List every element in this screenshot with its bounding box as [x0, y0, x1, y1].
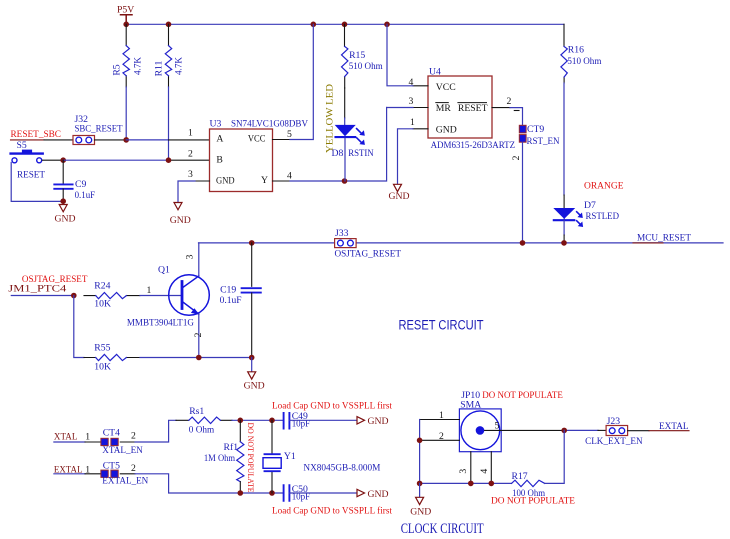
svg-text:CLOCK CIRCUIT: CLOCK CIRCUIT	[401, 521, 484, 537]
svg-text:4.7K: 4.7K	[174, 57, 185, 75]
svg-text:ORANGE: ORANGE	[584, 180, 624, 191]
ground flag right of C50	[357, 489, 389, 500]
svg-text:Rs1: Rs1	[189, 406, 204, 417]
net RESET_SBC	[11, 129, 74, 140]
svg-text:RESET: RESET	[17, 170, 45, 181]
svg-text:C19: C19	[220, 285, 236, 296]
jumper CT5 EXTAL_EN	[101, 460, 148, 486]
svg-text:1: 1	[439, 410, 444, 421]
connector J32 SBC_RESET	[73, 114, 123, 145]
svg-text:R15: R15	[349, 50, 365, 61]
wire Rs1 to junction and rail to C49	[232, 419, 284, 421]
svg-text:GND: GND	[389, 191, 410, 202]
svg-text:Y: Y	[261, 175, 268, 186]
svg-text:MMBT3904LT1G: MMBT3904LT1G	[127, 318, 194, 329]
power P5V	[117, 5, 134, 25]
svg-text:VCC: VCC	[436, 82, 456, 93]
jumper CT4 XTAL_EN	[101, 428, 143, 456]
svg-text:2: 2	[439, 431, 444, 442]
connector J33 OSJTAG_RESET	[335, 228, 402, 260]
SECTION: transistor area	[8, 243, 483, 391]
svg-text:R55: R55	[94, 343, 110, 354]
switch S5	[11, 140, 45, 181]
node junction pin4 bottom	[489, 481, 495, 487]
ground below S5/C9	[55, 201, 76, 224]
node junction pin1 row	[123, 137, 129, 143]
wire U3 pin3 GND	[195, 180, 210, 182]
op-amp U3 SN74LVC1G08DBV body	[210, 118, 309, 191]
wire C49 to GND flag	[289, 419, 356, 421]
svg-text:Rf1: Rf1	[224, 442, 239, 453]
svg-text:CT9: CT9	[527, 124, 544, 135]
svg-text:R11: R11	[154, 60, 165, 76]
svg-text:Q1: Q1	[158, 265, 170, 276]
node P5V junction at R15	[342, 22, 348, 28]
svg-text:1M Ohm: 1M Ohm	[204, 453, 236, 464]
wire R24 to Q1 base	[140, 295, 181, 297]
wire R17 right up to center wire	[545, 430, 565, 483]
svg-text:CT4: CT4	[103, 428, 120, 439]
wire R5 to pin1 row	[125, 87, 127, 140]
svg-text:R16: R16	[568, 45, 584, 56]
LED D8 RSTIN	[332, 125, 374, 159]
node junction pin3 bottom	[468, 481, 474, 487]
svg-text:3: 3	[188, 169, 193, 180]
svg-text:J33: J33	[335, 228, 349, 239]
svg-text:0.1uF: 0.1uF	[220, 295, 243, 306]
svg-text:VCC: VCC	[248, 134, 266, 145]
node P5V junction at R11	[166, 22, 172, 28]
LED D7 RSTLED	[554, 200, 619, 227]
wire junction to U3 pin B	[63, 159, 168, 161]
svg-text:510 Ohm: 510 Ohm	[567, 56, 601, 67]
wire JP10 pin2	[420, 439, 460, 441]
svg-text:CLK_EXT_EN: CLK_EXT_EN	[585, 436, 643, 447]
node junction C19 top	[249, 240, 255, 246]
capacitor C9	[54, 160, 95, 201]
node junction R11 pin2 row	[166, 157, 172, 163]
svg-text:U3: U3	[210, 118, 222, 129]
svg-text:1: 1	[147, 285, 152, 296]
node P5V junction at U4 VCC	[384, 22, 390, 28]
svg-text:B: B	[216, 155, 222, 166]
crystal Y1	[263, 420, 296, 493]
resistor R15 leads	[344, 24, 346, 88]
svg-text:2: 2	[507, 96, 512, 107]
svg-text:3: 3	[458, 469, 469, 474]
svg-text:2: 2	[511, 155, 522, 160]
svg-text:5: 5	[287, 129, 292, 140]
label JP10 DO NOT POPULATE	[460, 390, 563, 411]
op-amp U4 ADM6315 body	[428, 67, 515, 152]
svg-text:R17: R17	[512, 471, 528, 482]
wire D8 to Y row	[344, 138, 346, 181]
resistor Rs1 leads	[176, 419, 232, 421]
node junction Rf1 bottom	[238, 490, 244, 496]
wire U4 pin2 RESET out	[492, 107, 510, 109]
wire R16 to D7	[563, 83, 565, 220]
wire J23 to EXTAL	[628, 430, 649, 432]
svg-text:DO NOT POPULATE: DO NOT POPULATE	[482, 390, 563, 401]
svg-text:Load Cap GND to VSSPLL first: Load Cap GND to VSSPLL first	[272, 506, 392, 517]
svg-text:10K: 10K	[94, 298, 111, 309]
svg-text:2: 2	[188, 148, 193, 159]
svg-text:NX8045GB-8.000M: NX8045GB-8.000M	[303, 463, 380, 474]
SECTION: reset circuit top	[11, 5, 724, 260]
net OSJTAG_RESET / JM1_PTC4	[8, 274, 87, 296]
wire R15 to D8	[344, 88, 346, 118]
svg-text:MR: MR	[436, 103, 452, 114]
svg-text:EXTAL_EN: EXTAL_EN	[102, 476, 148, 487]
resistor R11	[154, 46, 185, 77]
svg-text:4: 4	[287, 171, 292, 182]
svg-text:0 Ohm: 0 Ohm	[189, 424, 215, 435]
wire Q1 collector up to MCU rail	[198, 243, 200, 276]
wire CT9 to MCU rail	[522, 142, 524, 243]
svg-text:JM1_PTC4: JM1_PTC4	[8, 283, 66, 294]
svg-text:Load Cap GND to VSSPLL first: Load Cap GND to VSSPLL first	[272, 401, 392, 412]
svg-text:EXTAL: EXTAL	[659, 421, 689, 432]
svg-text:510 Ohm: 510 Ohm	[349, 61, 383, 72]
wire Q1 emitter down	[198, 314, 200, 358]
jumper CT9 RST_EN	[511, 124, 560, 160]
svg-text:XTAL: XTAL	[54, 431, 78, 442]
svg-text:GND: GND	[170, 215, 191, 226]
svg-text:3: 3	[409, 96, 414, 107]
svg-text:MCU_RESET: MCU_RESET	[637, 233, 691, 244]
svg-text:1: 1	[85, 431, 90, 442]
svg-text:2: 2	[193, 332, 204, 337]
wire junction to U3 pin A	[126, 139, 168, 141]
svg-text:RESET_SBC: RESET_SBC	[11, 129, 62, 140]
wire top P5V rail	[126, 23, 564, 25]
node P5V junction at R5	[123, 22, 129, 28]
resistor R55 leads	[84, 357, 140, 359]
svg-text:ADM6315-26D3ARTZ: ADM6315-26D3ARTZ	[431, 140, 516, 151]
svg-text:GND: GND	[410, 506, 431, 517]
resistor R24 leads	[84, 295, 140, 297]
svg-text:S5: S5	[17, 140, 27, 151]
svg-text:GND: GND	[55, 213, 76, 224]
SECTION: clock circuit	[54, 401, 484, 537]
wire JP10 pin3	[470, 452, 472, 484]
resistor R5	[111, 46, 143, 76]
node junction Y1 bottom	[269, 490, 275, 496]
svg-text:D7: D7	[584, 200, 596, 211]
svg-text:Y1: Y1	[284, 451, 296, 462]
capacitor C19	[220, 243, 261, 358]
svg-text:SBC_RESET: SBC_RESET	[75, 123, 123, 134]
wire S5 left terminal down and along bottom	[11, 163, 63, 202]
wire S5 right terminal to junction	[42, 159, 63, 161]
svg-text:YELLOW LED: YELLOW LED	[324, 84, 335, 153]
svg-text:RSTIN: RSTIN	[348, 148, 374, 159]
node junction emitter bottom	[196, 355, 202, 361]
svg-text:RST_EN: RST_EN	[527, 136, 560, 147]
resistor R16	[561, 45, 602, 78]
net EXTAL right	[649, 421, 689, 432]
SECTION: jp10 area	[410, 390, 689, 518]
wire MCU_RESET rail	[199, 242, 724, 244]
ground below C19	[244, 358, 265, 392]
wire D7 to MCU rail	[563, 220, 565, 235]
svg-text:GND: GND	[368, 416, 389, 427]
wire JP10 left vertical	[419, 420, 421, 484]
ground flag right of C49	[357, 416, 389, 427]
connector JP10 SMA body	[459, 409, 501, 452]
svg-text:GND: GND	[368, 489, 389, 500]
wire C50 to GND flag	[289, 492, 356, 494]
node junction pin2 left	[417, 438, 423, 444]
resistor R17	[491, 471, 575, 506]
svg-text:XTAL_EN: XTAL_EN	[102, 445, 143, 456]
node junction Y row at D8	[342, 178, 348, 184]
svg-text:R5: R5	[111, 64, 122, 75]
svg-text:4.7K: 4.7K	[132, 57, 143, 75]
svg-text:1: 1	[85, 465, 90, 476]
svg-text:OSJTAG_RESET: OSJTAG_RESET	[335, 248, 402, 259]
wire R11 to pin2 row	[168, 87, 170, 160]
svg-text:3: 3	[185, 254, 196, 259]
resistor R16 leads	[563, 24, 565, 83]
wire CT5 to bottom rail corner	[120, 473, 135, 475]
svg-text:10K: 10K	[94, 361, 111, 372]
wire JP10 pin1	[420, 419, 460, 421]
active-low dash	[514, 110, 519, 112]
resistor R1 leads	[125, 24, 127, 87]
wire U3 pin4 Y output	[273, 180, 291, 182]
node junction pin2 row at C9	[60, 157, 66, 163]
node junction Rf1 top	[238, 418, 244, 424]
node junction bottom left	[417, 481, 423, 487]
capacitor C49	[284, 411, 311, 430]
wire JP10 pin4	[490, 452, 492, 484]
resistor R11 leads	[168, 24, 170, 87]
wire U4 pin3 MR stub	[413, 107, 428, 109]
svg-text:DO NOT POPULATE: DO NOT POPULATE	[491, 496, 575, 507]
node junction CT9 bottom	[520, 240, 526, 246]
svg-text:GND: GND	[436, 125, 457, 136]
node junction R17 top	[561, 428, 567, 434]
svg-text:2: 2	[131, 430, 136, 441]
resistor Rs1	[189, 406, 221, 435]
svg-text:1: 1	[410, 117, 415, 128]
wire JP10 bottom rail	[420, 482, 512, 484]
wire U3 pin5 VCC up to rail	[273, 139, 291, 141]
node junction D7 bottom	[561, 240, 567, 246]
ground below U4	[389, 184, 410, 202]
node junction Y1 top	[269, 418, 275, 424]
svg-text:SN74LVC1G08DBV: SN74LVC1G08DBV	[231, 118, 308, 129]
node junction C9 bottom	[60, 198, 66, 204]
svg-text:A: A	[216, 134, 223, 145]
svg-text:1: 1	[188, 127, 193, 138]
wire R55 to emitter junction	[140, 357, 252, 359]
svg-text:DO NOT POPULATE: DO NOT POPULATE	[246, 423, 256, 493]
svg-text:GND: GND	[244, 380, 265, 391]
transistor Q1 MMBT3904LT1G	[127, 265, 209, 329]
node P5V junction at U3 VCC	[311, 22, 317, 28]
wire U4 pin4 VCC to rail	[413, 85, 428, 87]
svg-text:RSTLED: RSTLED	[586, 211, 620, 222]
svg-text:4: 4	[409, 77, 414, 88]
wire JP10 center pin to J23	[485, 429, 565, 431]
resistor Rf1	[204, 420, 244, 493]
resistor R55	[94, 343, 126, 373]
wire down to R55 row	[74, 296, 84, 358]
svg-text:RESET CIRCUIT: RESET CIRCUIT	[399, 317, 484, 332]
net XTAL	[54, 431, 102, 442]
capacitor C50	[284, 484, 311, 503]
svg-text:GND: GND	[216, 175, 235, 186]
svg-text:RESET: RESET	[458, 103, 488, 114]
svg-text:4: 4	[479, 469, 490, 474]
svg-text:R24: R24	[94, 280, 110, 291]
connector J23 CLK_EXT_EN	[585, 416, 643, 447]
svg-text:0.1uF: 0.1uF	[75, 190, 96, 201]
ground below JP10	[410, 483, 431, 517]
node junction C19 bottom	[249, 355, 255, 361]
net MCU_RESET	[633, 233, 691, 244]
wire J32 to junction	[95, 139, 127, 141]
wire CT4 to top rail corner	[120, 441, 135, 443]
net EXTAL	[54, 465, 102, 476]
node junction base row	[71, 293, 77, 299]
svg-text:2: 2	[131, 463, 136, 474]
resistor R15	[342, 47, 384, 77]
svg-text:C9: C9	[75, 179, 86, 190]
resistor R24	[94, 280, 126, 309]
wire U4 pin1 GND down	[413, 128, 428, 130]
ground below U3	[170, 203, 191, 226]
